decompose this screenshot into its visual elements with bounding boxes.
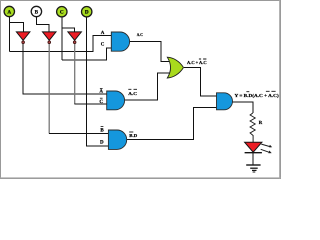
svg-text:A: A — [99, 89, 103, 95]
wire B stub and jog to inverter U2 input — [36, 17, 49, 32]
wire NOT-C output to AND U5 input — [75, 43, 108, 104]
wire NOT-B output to AND U6 input — [49, 43, 109, 133]
wire AND U5 output to OR U7 bottom input — [124, 73, 169, 100]
label D at U6 input — [100, 140, 104, 146]
LED D1 — [245, 142, 262, 153]
wire A jog to inverter U1 input — [9, 23, 23, 32]
wire NOT-A output to AND U5 input — [23, 43, 107, 94]
AND gate U6 (Bbar.D) — [108, 130, 126, 149]
svg-text:B.D: B.D — [129, 133, 137, 138]
input terminal C — [57, 7, 67, 17]
wire AND U6 output to AND U8 bottom input — [126, 108, 216, 140]
svg-text:B: B — [35, 9, 39, 15]
LED emission arrow 2 — [261, 149, 272, 153]
svg-text:D: D — [100, 140, 104, 146]
AND gate U8 (final Y) — [217, 93, 233, 110]
label A at U4 input — [101, 30, 105, 36]
wire OR U7 output to AND U8 top input — [184, 68, 217, 97]
wire AND U4 output to OR U7 top input — [130, 42, 170, 62]
wire A vertical from input A — [8, 17, 10, 52]
label A.C at U4 output — [137, 32, 143, 37]
svg-text:A: A — [7, 9, 11, 15]
wire C horizontal bus to AND U4 input C — [62, 48, 112, 60]
inverter U1 triangle — [16, 32, 30, 44]
AND gate U5 (Abar.Cbar) — [107, 91, 125, 110]
LED emission arrow 1 — [261, 144, 272, 147]
svg-text:A.C: A.C — [137, 32, 143, 37]
svg-text:Y = B.D(A.C + A.C): Y = B.D(A.C + A.C) — [235, 93, 280, 98]
input terminal A — [4, 6, 14, 16]
svg-text:C: C — [60, 10, 64, 16]
label Y equation at U8 output — [235, 91, 280, 98]
inverter U3 triangle — [68, 32, 82, 44]
wire D from input D to AND U6 input D — [87, 17, 109, 146]
OR gate U7 (A.C + Abar.Cbar) — [167, 57, 183, 78]
svg-text:A.C: A.C — [128, 91, 137, 96]
label A.C + Abar.Cbar at U7 output — [187, 59, 207, 65]
resistor R — [250, 113, 255, 142]
label R value — [259, 120, 263, 126]
svg-text:A.C + A.C: A.C + A.C — [187, 60, 207, 65]
wire C jog to inverter U3 input — [62, 28, 75, 32]
label C at U4 input — [101, 41, 105, 47]
inverter U2 triangle — [43, 32, 57, 44]
svg-text:D: D — [85, 10, 89, 16]
input terminal D — [82, 7, 92, 17]
svg-text:A: A — [101, 30, 105, 36]
label Cbar at U5 input — [99, 98, 103, 105]
AND gate U4 (A.C) — [111, 32, 129, 51]
wire LED cathode to ground — [252, 153, 254, 165]
svg-text:R: R — [259, 120, 263, 126]
label Abar at U5 input — [99, 89, 103, 95]
input terminal B — [31, 6, 41, 16]
label Bbar at U6 input — [100, 127, 104, 134]
ground — [246, 165, 260, 172]
wire C vertical from input C — [61, 17, 63, 60]
label Abar.Cbar at U5 output — [128, 89, 137, 96]
label Bbar.D at U6 output — [129, 132, 137, 138]
wire AND U8 output Y to resistor R — [232, 102, 252, 113]
svg-text:C: C — [101, 41, 105, 47]
wire A horizontal bus to AND U4 input A — [9, 36, 111, 52]
border frame — [1, 1, 281, 179]
svg-text:C: C — [99, 99, 103, 105]
